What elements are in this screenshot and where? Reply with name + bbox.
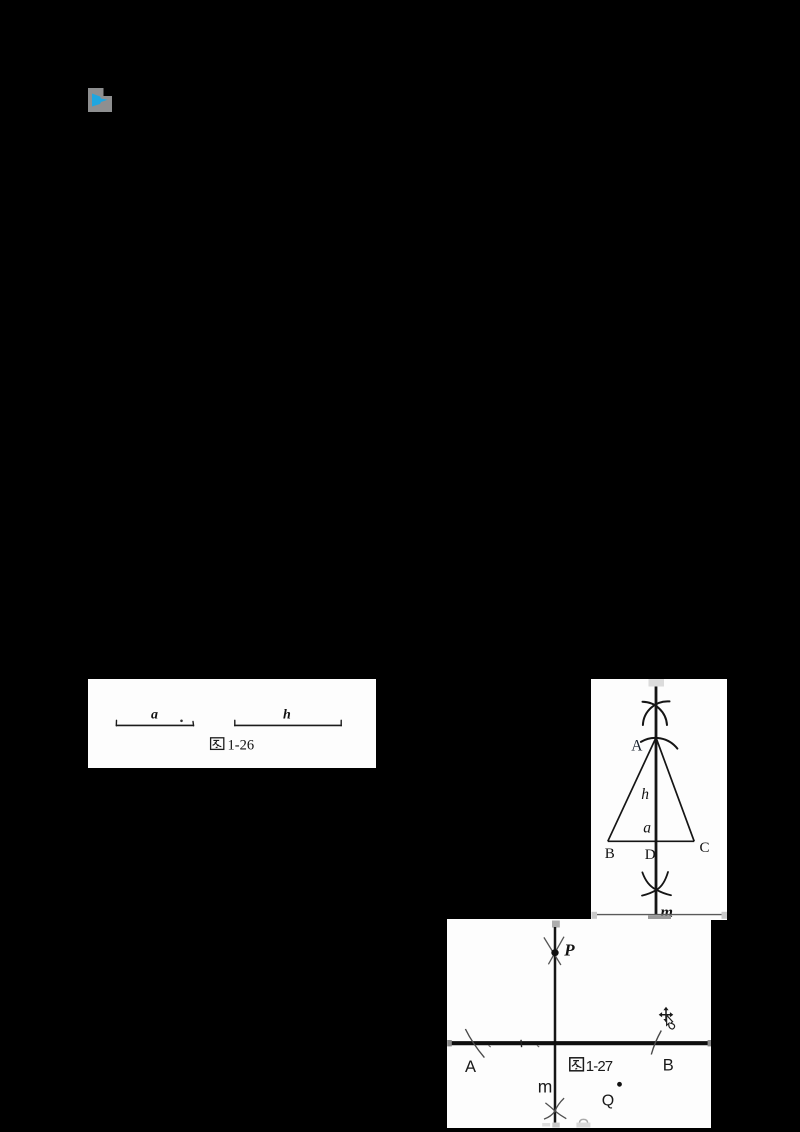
svg-text:1-27: 1-27	[586, 1058, 613, 1075]
upper arc cross left	[643, 702, 668, 725]
arc through A	[465, 1029, 484, 1058]
segment a line	[117, 724, 194, 726]
vertical line m	[554, 927, 557, 1123]
top selection handle	[649, 679, 665, 687]
triangle side AC	[656, 738, 694, 842]
baseline m (selected line)	[593, 914, 727, 916]
icon gray body	[88, 88, 112, 112]
move cursor arrow	[667, 1015, 675, 1029]
svg-text:1-26: 1-26	[228, 738, 255, 754]
line AB	[449, 1041, 710, 1045]
lower arc cross right	[642, 872, 668, 896]
faint circle bottom-right	[579, 1119, 587, 1123]
svg-text:m: m	[538, 1077, 553, 1097]
baseline left handle	[592, 912, 598, 919]
top handle of line m	[552, 921, 560, 928]
svg-text:B: B	[605, 846, 615, 862]
segment h left tick	[234, 720, 236, 726]
svg-text:h: h	[283, 708, 291, 723]
figure 1-27 box	[447, 919, 711, 1128]
upper arc cross right	[643, 701, 670, 725]
point P dot	[551, 949, 558, 956]
svg-text:a: a	[643, 820, 651, 837]
segment h right tick	[340, 720, 342, 726]
baseline center handle	[648, 915, 671, 920]
svg-text:A: A	[465, 1058, 476, 1076]
svg-text:C: C	[700, 840, 710, 856]
svg-text:a: a	[151, 708, 158, 723]
caption glyph 图	[211, 738, 224, 750]
P cross stroke 1	[544, 937, 561, 965]
tick mark on AB	[520, 1040, 523, 1047]
arc through B	[651, 1031, 661, 1055]
baseline right handle	[722, 912, 728, 919]
svg-text:h: h	[641, 786, 649, 803]
triangle base BC	[608, 840, 694, 842]
arc through A	[641, 738, 678, 749]
vertical line AD m	[655, 687, 658, 916]
svg-text:P: P	[563, 940, 575, 959]
lower arc cross left	[642, 872, 671, 895]
Q cross stroke 1	[544, 1098, 564, 1119]
triangle construction figure box	[591, 679, 727, 920]
icon blue arrow	[92, 94, 108, 107]
AB right handle	[708, 1040, 713, 1046]
svg-text:Q: Q	[602, 1093, 614, 1110]
segment a left tick	[115, 720, 117, 726]
caption glyph 图	[570, 1058, 584, 1071]
small tick marks under AB	[489, 1045, 540, 1047]
dot near Q	[617, 1082, 622, 1087]
bottom handle of line m	[552, 1123, 559, 1128]
svg-text:A: A	[631, 737, 643, 754]
dot near segment a	[180, 720, 183, 723]
move cursor cross	[659, 1007, 674, 1023]
Q cross stroke 2	[545, 1103, 566, 1119]
faint rect bottom-right	[576, 1123, 590, 1128]
svg-text:B: B	[663, 1056, 674, 1074]
P cross stroke 2	[548, 937, 564, 965]
triangle side AB	[608, 738, 656, 842]
svg-text:D: D	[645, 847, 656, 863]
segment h line	[235, 724, 341, 726]
player icon (gray folded square with blue play arrow)	[85, 85, 115, 115]
bottom-left faint handle	[542, 1123, 550, 1127]
segment a right tick	[192, 722, 195, 726]
AB left handle	[447, 1040, 452, 1046]
figure 1-26 box	[88, 679, 376, 768]
